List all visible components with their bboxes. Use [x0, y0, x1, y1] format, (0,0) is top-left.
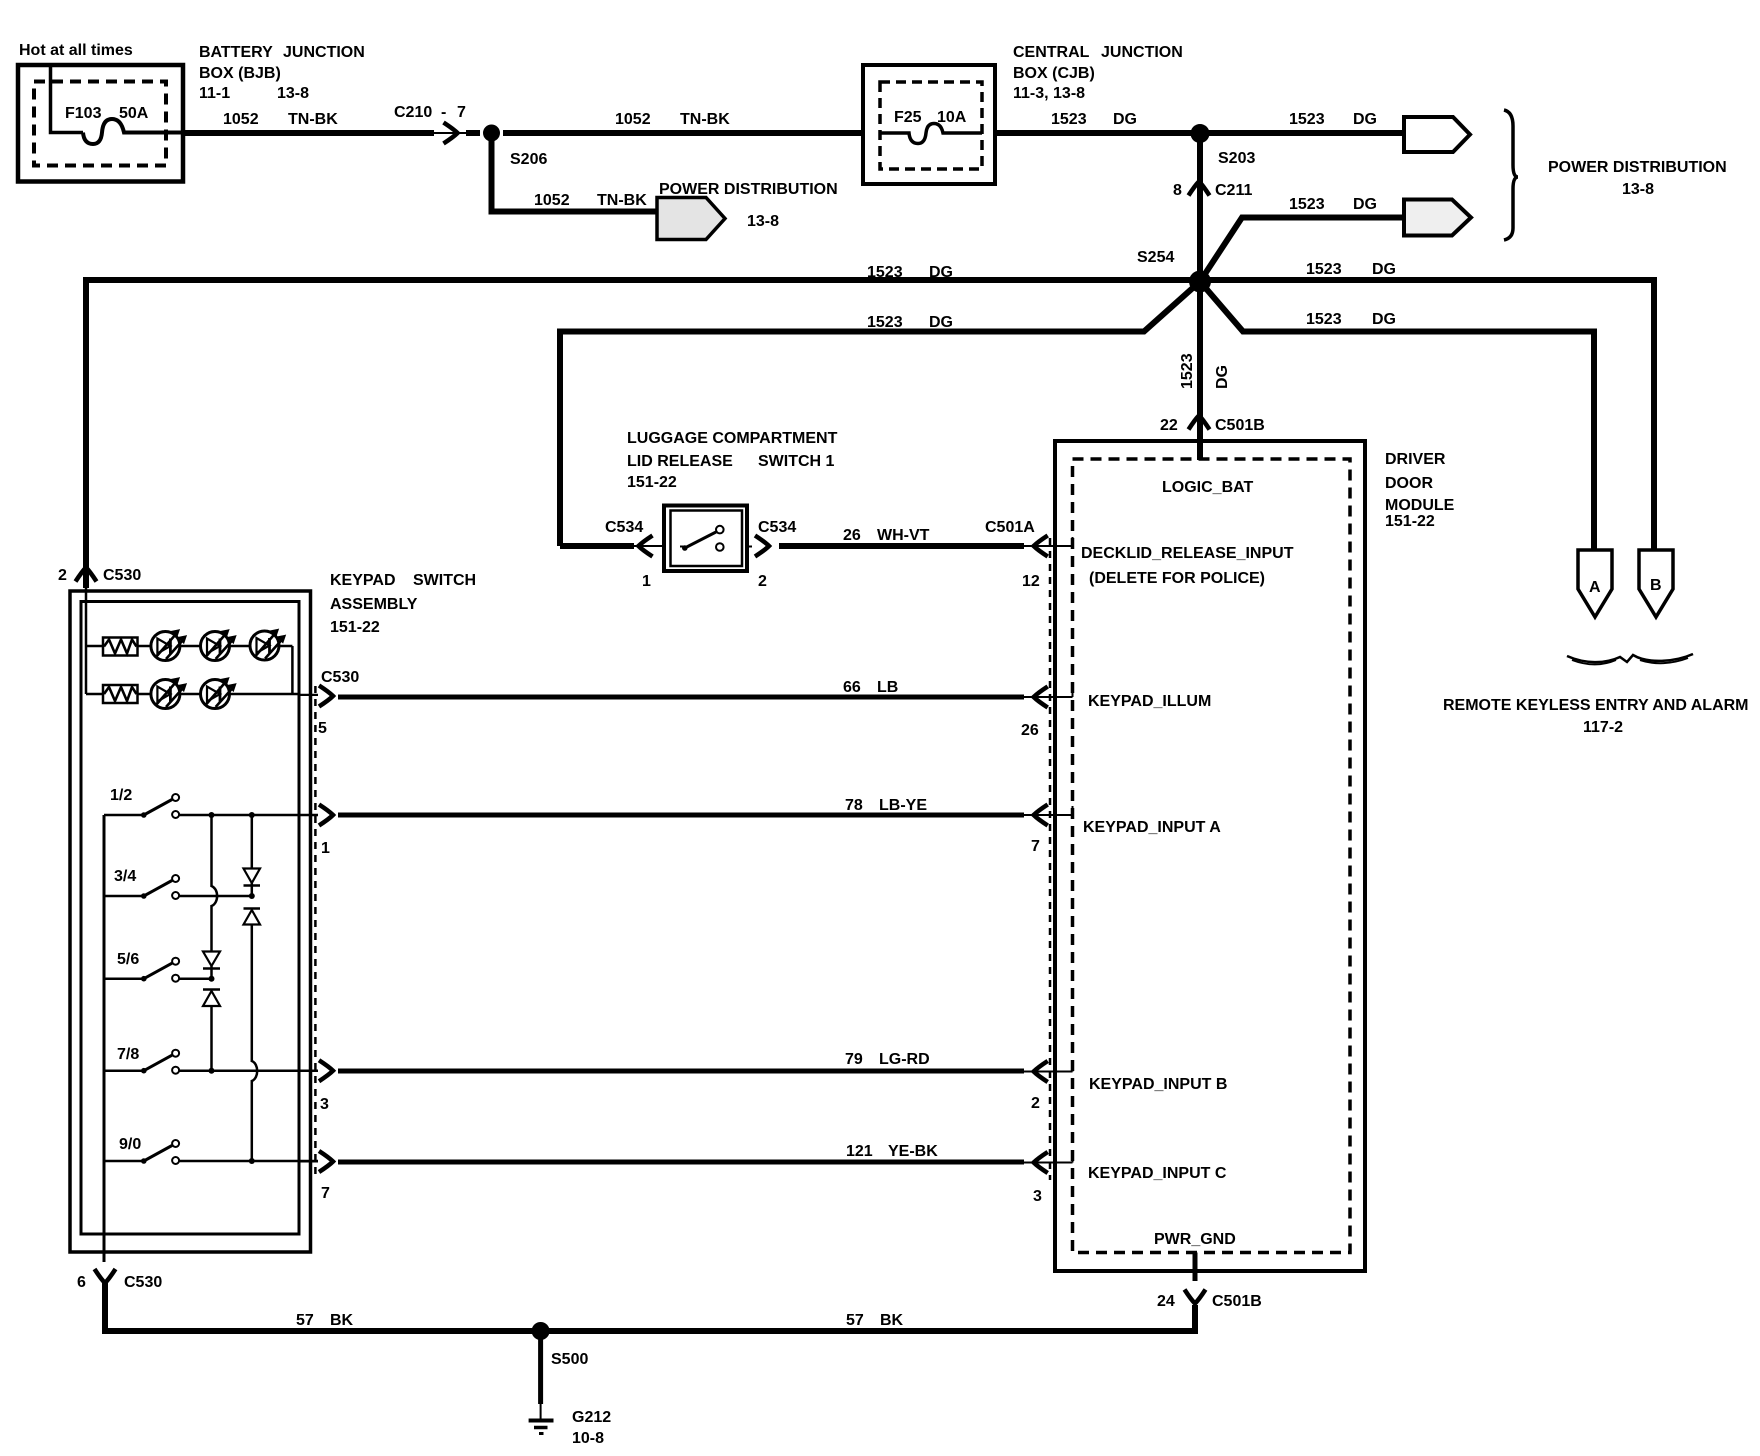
- svg-text:DECKLID_RELEASE_INPUT: DECKLID_RELEASE_INPUT: [1081, 545, 1294, 562]
- svg-text:C530: C530: [124, 1274, 162, 1291]
- svg-text:KEYPAD_ILLUM: KEYPAD_ILLUM: [1088, 693, 1211, 710]
- svg-text:5: 5: [318, 720, 327, 737]
- svg-text:BOX (BJB): BOX (BJB): [199, 65, 281, 82]
- svg-text:1052: 1052: [223, 111, 259, 128]
- svg-text:S203: S203: [1218, 150, 1255, 167]
- svg-text:5/6: 5/6: [117, 951, 139, 968]
- svg-text:LUGGAGE COMPARTMENT: LUGGAGE COMPARTMENT: [627, 430, 838, 447]
- svg-text:1523: 1523: [867, 264, 903, 281]
- svg-text:1523: 1523: [1051, 111, 1087, 128]
- svg-text:JUNCTION: JUNCTION: [1101, 44, 1183, 61]
- svg-text:121: 121: [846, 1143, 873, 1160]
- svg-text:-: -: [441, 104, 446, 121]
- svg-text:TN-BK: TN-BK: [288, 111, 338, 128]
- svg-text:24: 24: [1157, 1293, 1175, 1310]
- svg-text:C534: C534: [758, 519, 796, 536]
- svg-text:11-3, 13-8: 11-3, 13-8: [1013, 85, 1085, 102]
- svg-text:1/2: 1/2: [110, 787, 132, 804]
- svg-text:LB-YE: LB-YE: [879, 797, 927, 814]
- svg-text:10A: 10A: [937, 109, 967, 126]
- svg-text:3/4: 3/4: [114, 868, 136, 885]
- svg-text:F25: F25: [894, 109, 922, 126]
- svg-text:BK: BK: [330, 1312, 354, 1329]
- svg-text:C210: C210: [394, 104, 432, 121]
- svg-text:WH-VT: WH-VT: [877, 527, 930, 544]
- svg-text:1052: 1052: [534, 192, 570, 209]
- svg-text:POWER DISTRIBUTION: POWER DISTRIBUTION: [1548, 159, 1727, 176]
- svg-text:S206: S206: [510, 151, 547, 168]
- svg-text:6: 6: [77, 1274, 86, 1291]
- svg-text:DG: DG: [1372, 311, 1396, 328]
- svg-text:A: A: [1589, 579, 1601, 596]
- svg-text:9/0: 9/0: [119, 1136, 141, 1153]
- svg-text:1523: 1523: [1306, 261, 1342, 278]
- svg-text:26: 26: [843, 527, 861, 544]
- svg-text:DG: DG: [1353, 196, 1377, 213]
- svg-text:BK: BK: [880, 1312, 904, 1329]
- svg-text:C530: C530: [103, 567, 141, 584]
- svg-text:C501A: C501A: [985, 519, 1035, 536]
- svg-text:2: 2: [58, 567, 67, 584]
- svg-text:1052: 1052: [615, 111, 651, 128]
- svg-text:LID RELEASE: LID RELEASE: [627, 453, 733, 470]
- svg-text:1523: 1523: [1179, 353, 1196, 389]
- svg-text:151-22: 151-22: [1385, 513, 1435, 530]
- svg-text:YE-BK: YE-BK: [888, 1143, 938, 1160]
- svg-text:79: 79: [845, 1051, 863, 1068]
- svg-text:TN-BK: TN-BK: [597, 192, 647, 209]
- svg-text:POWER DISTRIBUTION: POWER DISTRIBUTION: [659, 181, 838, 198]
- svg-text:10-8: 10-8: [572, 1430, 604, 1447]
- svg-text:151-22: 151-22: [330, 619, 380, 636]
- svg-text:50A: 50A: [119, 105, 149, 122]
- svg-text:BATTERY: BATTERY: [199, 44, 273, 61]
- svg-text:57: 57: [846, 1312, 864, 1329]
- svg-text:2: 2: [758, 573, 767, 590]
- svg-text:1: 1: [321, 840, 330, 857]
- svg-text:151-22: 151-22: [627, 474, 677, 491]
- svg-text:DRIVER: DRIVER: [1385, 451, 1446, 468]
- svg-text:57: 57: [296, 1312, 314, 1329]
- svg-text:78: 78: [845, 797, 863, 814]
- svg-text:C501B: C501B: [1215, 417, 1265, 434]
- svg-text:CENTRAL: CENTRAL: [1013, 44, 1090, 61]
- svg-text:C530: C530: [321, 669, 359, 686]
- svg-text:26: 26: [1021, 722, 1039, 739]
- svg-text:REMOTE KEYLESS ENTRY AND ALARM: REMOTE KEYLESS ENTRY AND ALARM: [1443, 697, 1749, 714]
- svg-text:1523: 1523: [1289, 111, 1325, 128]
- svg-text:13-8: 13-8: [1622, 181, 1654, 198]
- svg-text:C211: C211: [1215, 182, 1252, 199]
- svg-text:KEYPAD_INPUT C: KEYPAD_INPUT C: [1088, 1165, 1227, 1182]
- svg-text:S254: S254: [1137, 249, 1174, 266]
- svg-text:C501B: C501B: [1212, 1293, 1262, 1310]
- svg-text:13-8: 13-8: [277, 85, 309, 102]
- svg-text:MODULE: MODULE: [1385, 497, 1455, 514]
- svg-text:G212: G212: [572, 1409, 611, 1426]
- svg-text:Hot at all times: Hot at all times: [19, 42, 133, 59]
- svg-text:(DELETE FOR POLICE): (DELETE FOR POLICE): [1089, 570, 1265, 587]
- svg-text:KEYPAD_INPUT A: KEYPAD_INPUT A: [1083, 819, 1221, 836]
- svg-text:KEYPAD_INPUT B: KEYPAD_INPUT B: [1089, 1076, 1227, 1093]
- svg-text:13-8: 13-8: [747, 213, 779, 230]
- svg-text:LG-RD: LG-RD: [879, 1051, 930, 1068]
- svg-text:LB: LB: [877, 679, 898, 696]
- svg-text:1523: 1523: [1289, 196, 1325, 213]
- svg-text:2: 2: [1031, 1095, 1040, 1112]
- svg-text:1: 1: [642, 573, 651, 590]
- svg-text:JUNCTION: JUNCTION: [283, 44, 365, 61]
- svg-text:11-1: 11-1: [199, 85, 230, 102]
- svg-text:TN-BK: TN-BK: [680, 111, 730, 128]
- svg-text:DG: DG: [1372, 261, 1396, 278]
- svg-text:8: 8: [1173, 182, 1182, 199]
- svg-text:7: 7: [1031, 838, 1040, 855]
- svg-text:117-2: 117-2: [1583, 719, 1623, 736]
- svg-text:SWITCH: SWITCH: [413, 572, 476, 589]
- svg-text:7: 7: [321, 1185, 330, 1202]
- svg-text:KEYPAD: KEYPAD: [330, 572, 396, 589]
- svg-text:7: 7: [457, 104, 466, 121]
- svg-text:DG: DG: [929, 314, 953, 331]
- svg-text:DG: DG: [1214, 365, 1231, 389]
- svg-text:F103: F103: [65, 105, 102, 122]
- svg-text:3: 3: [320, 1096, 329, 1113]
- svg-text:LOGIC_BAT: LOGIC_BAT: [1162, 479, 1253, 496]
- svg-text:22: 22: [1160, 417, 1178, 434]
- svg-text:3: 3: [1033, 1188, 1042, 1205]
- svg-text:1523: 1523: [1306, 311, 1342, 328]
- svg-text:DG: DG: [1113, 111, 1137, 128]
- svg-text:DG: DG: [929, 264, 953, 281]
- svg-text:C534: C534: [605, 519, 643, 536]
- svg-text:DG: DG: [1353, 111, 1377, 128]
- svg-text:B: B: [1650, 577, 1662, 594]
- svg-text:S500: S500: [551, 1351, 588, 1368]
- svg-text:BOX (CJB): BOX (CJB): [1013, 65, 1095, 82]
- svg-text:DOOR: DOOR: [1385, 475, 1433, 492]
- svg-text:1523: 1523: [867, 314, 903, 331]
- svg-text:12: 12: [1022, 573, 1040, 590]
- svg-text:PWR_GND: PWR_GND: [1154, 1231, 1236, 1248]
- svg-text:SWITCH 1: SWITCH 1: [758, 453, 835, 470]
- svg-text:7/8: 7/8: [117, 1046, 139, 1063]
- svg-text:66: 66: [843, 679, 861, 696]
- svg-text:ASSEMBLY: ASSEMBLY: [330, 596, 418, 613]
